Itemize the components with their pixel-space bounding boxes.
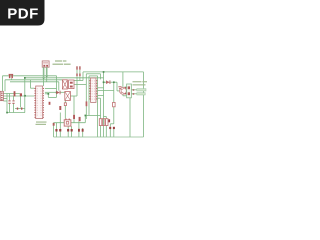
svg-text:PDF: PDF: [7, 6, 39, 23]
